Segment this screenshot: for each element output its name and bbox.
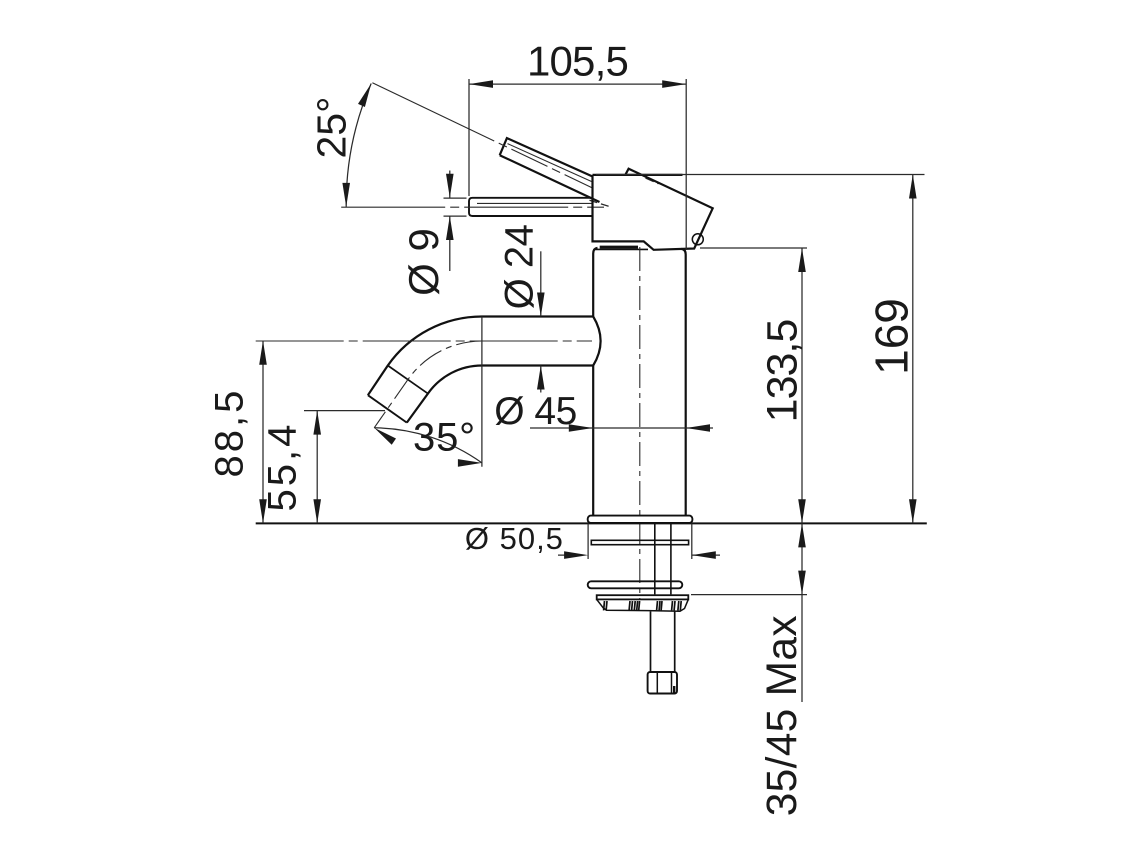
lever hidden edge inside head (dashed) <box>590 200 613 207</box>
svg-text:88,5: 88,5 <box>208 388 252 478</box>
lever raised centerline <box>372 83 592 188</box>
svg-text:Ø 24: Ø 24 <box>498 224 542 309</box>
cap hidden edge dashed <box>646 178 659 184</box>
threaded stud lower <box>650 612 652 672</box>
faucet body cylinder (dim Ø45) <box>593 248 600 516</box>
dim Ø45 line <box>530 427 713 429</box>
spout aerator seam line <box>388 366 428 394</box>
dim 35 deg arc <box>374 428 482 463</box>
svg-text:Ø 50,5: Ø 50,5 <box>465 521 564 556</box>
55,4 extension line <box>304 410 385 412</box>
svg-text:55,4: 55,4 <box>261 422 305 512</box>
svg-text:169: 169 <box>866 298 918 375</box>
lever rod highlight line <box>477 202 592 204</box>
dim 88,5 vertical <box>262 341 264 524</box>
svg-text:105,5: 105,5 <box>527 38 628 85</box>
lower washer (stadium) <box>588 581 683 588</box>
spout outlet end face <box>368 395 407 422</box>
35/45 Max extension line <box>691 594 807 596</box>
svg-text:133,5: 133,5 <box>759 320 807 423</box>
dim 55,4 vertical <box>316 411 318 524</box>
Ø9 bottom extension tick <box>444 215 467 217</box>
169 top extension line <box>596 174 925 176</box>
dim 25 deg arc <box>346 84 371 207</box>
lock nut top plate <box>597 595 689 599</box>
svg-text:Ø 9: Ø 9 <box>400 228 447 296</box>
dim 35/45 Max vertical <box>801 523 803 702</box>
lever rod highlight edge <box>508 144 592 182</box>
dim 105,5 right extension line <box>685 79 687 250</box>
countertop / mounting surface line <box>256 522 927 524</box>
dim 169 vertical <box>912 175 914 524</box>
head/body joint heavy line <box>600 246 638 249</box>
Ø9 top extension tick <box>444 197 467 199</box>
dim 105,5 top horizontal <box>469 83 686 85</box>
svg-text:Ø 45: Ø 45 <box>494 390 577 433</box>
dim 35 deg vertical extension <box>481 317 483 467</box>
rubber washer plate under counter <box>591 540 688 544</box>
spout centerline horizontal <box>256 340 592 342</box>
body top edge under head <box>594 248 649 250</box>
dim 133,5 vertical <box>801 248 803 523</box>
dim Ø50,5 extension lines <box>587 523 589 559</box>
lever handle rest position (horizontal rod, dim Ø9) <box>469 198 593 216</box>
hex nut <box>648 672 677 694</box>
base flange (dim Ø50,5) <box>588 516 693 523</box>
spout outlet centerline (bend + axis) <box>374 341 482 428</box>
threaded shank upper (behind washers) <box>654 523 656 594</box>
spout tube (dim Ø24) <box>368 317 593 396</box>
svg-text:25°: 25° <box>309 96 355 158</box>
dim Ø24 arrows <box>540 251 542 316</box>
dim Ø9 arrows <box>449 171 451 198</box>
lever handle raised 25deg (tilted rod) <box>500 138 600 202</box>
mixer head / cartridge housing <box>593 169 713 250</box>
lock nut serrated band <box>597 599 689 611</box>
dim Ø50,5 arrows <box>558 554 581 556</box>
svg-text:35/45 Max: 35/45 Max <box>759 615 806 816</box>
133,5 extension line <box>700 247 807 249</box>
set screw circle on head <box>692 234 703 245</box>
dim 105,5 left extension line <box>468 79 470 196</box>
lever rest centerline <box>341 206 604 208</box>
svg-text:35°: 35° <box>413 416 476 460</box>
body vertical centerline <box>639 247 641 600</box>
